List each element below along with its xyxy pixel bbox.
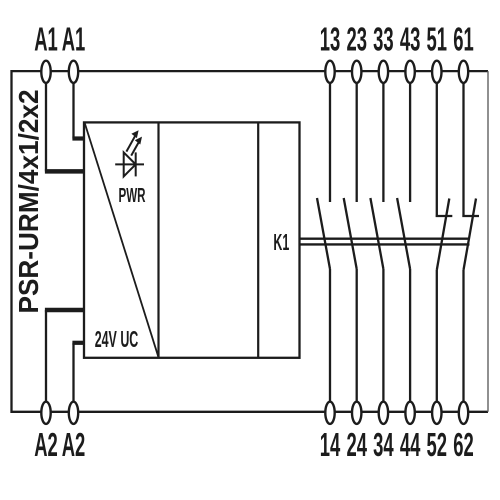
terminal 43 bbox=[405, 61, 414, 83]
svg-text:44: 44 bbox=[400, 426, 420, 463]
terminal 24 bbox=[352, 402, 361, 424]
NO contact 43-44 bbox=[397, 83, 410, 403]
terminal 52 bbox=[432, 402, 441, 424]
wire A1 inner bbox=[72, 83, 84, 139]
svg-text:51: 51 bbox=[427, 21, 447, 58]
NO contact 33-34 bbox=[370, 83, 383, 403]
terminal 14 bbox=[325, 402, 334, 424]
wire A2 inner bbox=[72, 343, 84, 402]
svg-text:K1: K1 bbox=[273, 229, 289, 255]
terminal 51 bbox=[432, 61, 441, 83]
svg-text:24V UC: 24V UC bbox=[95, 326, 139, 352]
svg-text:23: 23 bbox=[346, 21, 366, 58]
svg-text:A2: A2 bbox=[34, 426, 58, 463]
svg-text:14: 14 bbox=[320, 426, 340, 463]
svg-text:62: 62 bbox=[453, 426, 473, 463]
svg-text:13: 13 bbox=[320, 21, 340, 58]
terminal A2 inner bbox=[69, 402, 78, 424]
terminal 44 bbox=[405, 402, 414, 424]
svg-text:PWR: PWR bbox=[118, 185, 145, 207]
NC contact 51-52 bbox=[436, 83, 453, 403]
terminal A2 outer bbox=[41, 402, 50, 424]
module right border bbox=[487, 71, 489, 412]
terminal A1 outer bbox=[41, 61, 50, 83]
terminal 62 bbox=[459, 402, 468, 424]
svg-text:43: 43 bbox=[400, 21, 420, 58]
terminal 23 bbox=[352, 61, 361, 83]
svg-text:61: 61 bbox=[453, 21, 473, 58]
divider K1 cell bbox=[257, 122, 259, 357]
svg-text:34: 34 bbox=[373, 426, 393, 463]
terminal 33 bbox=[379, 61, 388, 83]
svg-text:24: 24 bbox=[346, 426, 366, 463]
svg-text:52: 52 bbox=[427, 426, 447, 463]
module outline bbox=[12, 71, 489, 412]
wire A2 outer bbox=[45, 310, 85, 402]
NC contact 61-62 bbox=[462, 83, 479, 403]
svg-text:A1: A1 bbox=[62, 21, 86, 58]
svg-text:A2: A2 bbox=[62, 426, 86, 463]
inner device box bbox=[84, 122, 300, 357]
terminal 13 bbox=[325, 61, 334, 83]
svg-text:PSR-URM/4x1/2x2: PSR-URM/4x1/2x2 bbox=[13, 90, 44, 314]
svg-text:33: 33 bbox=[373, 21, 393, 58]
divider power cell bbox=[157, 122, 159, 357]
terminal 61 bbox=[459, 61, 468, 83]
svg-text:A1: A1 bbox=[34, 21, 58, 58]
NO contact 13-14 bbox=[317, 83, 330, 403]
power supply diagonal bbox=[85, 123, 159, 357]
terminal A1 inner bbox=[69, 61, 78, 83]
relay coil linkage double line bbox=[299, 239, 470, 245]
LED PWR indicator bbox=[115, 130, 144, 176]
NO contact 23-24 bbox=[344, 83, 357, 403]
wire A1 outer bbox=[45, 83, 85, 172]
terminal 34 bbox=[379, 402, 388, 424]
